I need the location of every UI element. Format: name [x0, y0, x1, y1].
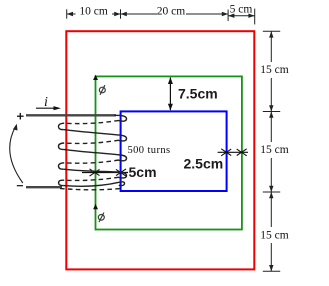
coil turn 3 front arc [63, 149, 120, 155]
source arc [10, 126, 23, 184]
top dimension tick at red right [254, 9, 256, 25]
coil turn 3 back (dashed) [64, 160, 119, 163]
right dimension tick at top [263, 30, 280, 32]
svg-text:10 cm: 10 cm [79, 5, 107, 17]
current arrow [36, 107, 55, 109]
svg-text:5cm: 5cm [129, 164, 157, 180]
top dimension tick at window left [120, 9, 122, 18]
svg-text:20 cm: 20 cm [157, 5, 185, 17]
flux arrow bottom (on green left limb) [93, 204, 98, 209]
svg-text:7.5cm: 7.5cm [178, 86, 218, 102]
15 cm segment 1 line [270, 31, 272, 62]
right dimension tick 3 [263, 191, 280, 193]
flux label phi bottom [98, 213, 104, 223]
coil turn 1 right hook [119, 115, 127, 121]
coil turn 2 back (dashed) [64, 140, 119, 143]
coil turn 5 front arc [63, 182, 119, 186]
coil bottom back (dashed) [60, 188, 122, 189]
right dimension tick at bottom [263, 270, 280, 272]
top wire [26, 114, 116, 116]
coil turn 2 right hook [119, 135, 127, 141]
top dimension tick at window right [227, 10, 229, 22]
15 cm segment 3 line [270, 192, 272, 227]
svg-text:15 cm: 15 cm [260, 230, 288, 242]
15 cm segment 2 line [270, 112, 272, 143]
svg-text:15 cm: 15 cm [260, 64, 288, 76]
coil turn 1 back (dashed) [64, 120, 119, 123]
svg-text:500 turns: 500 turns [128, 145, 171, 156]
2.5cm dimension (window right to green right) [218, 151, 248, 153]
5 cm dimension line [228, 15, 255, 17]
svg-text:2.5cm: 2.5cm [184, 156, 224, 172]
coil turn 3 right hook [119, 155, 127, 161]
minus terminal [17, 185, 23, 187]
coil turn 2 left curl [58, 143, 64, 149]
plus terminal [17, 113, 24, 120]
bottom wire [26, 186, 62, 188]
10 cm dimension line [67, 13, 76, 15]
coil turn 1 left curl [58, 123, 64, 129]
svg-text:15 cm: 15 cm [260, 144, 288, 156]
right dimension tick 2 [263, 111, 280, 113]
coil turn 4 front arc [63, 169, 120, 172]
20 cm dimension line [121, 13, 158, 15]
coil turn 5 right hook [119, 182, 125, 186]
5cm dimension (green left to window left) [82, 172, 128, 174]
coil turn 4 left curl [59, 180, 65, 185]
window (blue rectangle) [121, 111, 227, 191]
coil turn 2 front arc [63, 130, 120, 136]
mean flux path (green rectangle) [96, 76, 242, 229]
svg-text:5 cm: 5 cm [230, 4, 253, 16]
coil turn 3 left curl [58, 163, 64, 169]
coil turn 1 front wire [114, 114, 121, 116]
coil turn 4 back (dashed) [64, 177, 119, 180]
flux arrow top (on green left limb) [93, 75, 98, 80]
flux label phi top [99, 85, 105, 95]
7.5cm dimension arrow (green top to window top) [169, 78, 171, 111]
top dimension tick at red left [66, 9, 68, 18]
core outer boundary (red rectangle) [66, 31, 254, 269]
coil turn 4 right hook [119, 172, 127, 178]
